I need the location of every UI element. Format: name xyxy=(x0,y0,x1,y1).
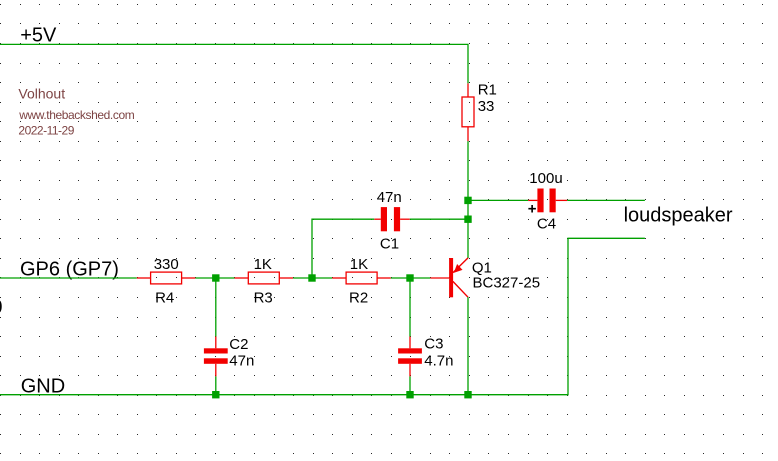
wire C2 to ground rail xyxy=(215,376,217,394)
svg-text:0: 0 xyxy=(0,297,2,319)
junction at (410,394.7) xyxy=(406,391,413,398)
wire +5V rail xyxy=(0,44,468,83)
svg-text:100u: 100u xyxy=(529,170,562,187)
svg-text:C1: C1 xyxy=(380,236,399,253)
wire R1 to emitter node column xyxy=(467,141,469,258)
wire junction to C3 xyxy=(409,278,411,337)
svg-text:Volhout: Volhout xyxy=(18,86,65,102)
svg-text:33: 33 xyxy=(478,98,495,115)
svg-text:GND: GND xyxy=(21,375,65,397)
junction at (215.8,278) xyxy=(212,274,219,281)
svg-text:+5V: +5V xyxy=(20,25,57,47)
wire R4 to R3 xyxy=(195,277,234,279)
junction node B at (468,219.2) xyxy=(464,216,471,223)
svg-text:BC327-25: BC327-25 xyxy=(473,274,541,291)
junction node A at (468,200.4) xyxy=(464,197,471,204)
transistor Q1 PNP BC327-25 xyxy=(430,258,468,297)
wire Q1 collector to ground rail xyxy=(467,297,469,395)
capacitor C4 (polarized 100u) xyxy=(528,189,567,213)
wire input rail GP6 xyxy=(0,277,137,279)
resistor R3 xyxy=(235,272,294,284)
junction at (468,394.7) xyxy=(464,391,471,398)
wire node B to C1 xyxy=(410,218,468,220)
svg-text:47n: 47n xyxy=(377,189,402,206)
svg-text:+: + xyxy=(528,201,537,218)
svg-text:R2: R2 xyxy=(349,289,368,306)
svg-text:GP6 (GP7): GP6 (GP7) xyxy=(20,258,119,280)
junction at (312,278) xyxy=(308,274,315,281)
resistor R1 xyxy=(462,83,474,141)
svg-text:R1: R1 xyxy=(478,82,497,99)
svg-text:www.thebackshed.com: www.thebackshed.com xyxy=(18,108,135,122)
junction at (215.8,394.7) xyxy=(212,391,219,398)
wire C4 to loudspeaker top terminal xyxy=(567,199,645,201)
capacitor C2 (47n) xyxy=(204,337,228,377)
junction at (410,278) xyxy=(406,274,413,281)
wire GND rail and loudspeaker return xyxy=(0,238,645,394)
svg-text:C3: C3 xyxy=(424,336,443,353)
capacitor C1 (47n) xyxy=(374,207,410,231)
svg-text:4.7n: 4.7n xyxy=(424,353,453,370)
svg-text:R3: R3 xyxy=(254,289,273,306)
wire C3 to ground rail xyxy=(409,376,411,394)
svg-text:47n: 47n xyxy=(229,353,254,370)
resistor R4 xyxy=(137,272,196,284)
svg-text:2022-11-29: 2022-11-29 xyxy=(18,124,74,138)
svg-text:1K: 1K xyxy=(254,256,272,273)
wire node A to C4 xyxy=(468,199,528,201)
wire C1 left down to base node xyxy=(312,219,374,278)
svg-text:R4: R4 xyxy=(155,289,174,306)
svg-text:C2: C2 xyxy=(229,336,248,353)
resistor R2 xyxy=(332,272,391,284)
wire R2 to Q1 base xyxy=(391,277,431,279)
svg-text:1K: 1K xyxy=(350,256,368,273)
wire junction to C2 xyxy=(215,278,217,337)
svg-text:C4: C4 xyxy=(537,215,556,232)
capacitor C3 (4.7n) xyxy=(398,337,422,377)
wire R3 to R2 xyxy=(293,277,332,279)
svg-text:330: 330 xyxy=(154,256,179,273)
svg-text:loudspeaker: loudspeaker xyxy=(624,205,733,227)
